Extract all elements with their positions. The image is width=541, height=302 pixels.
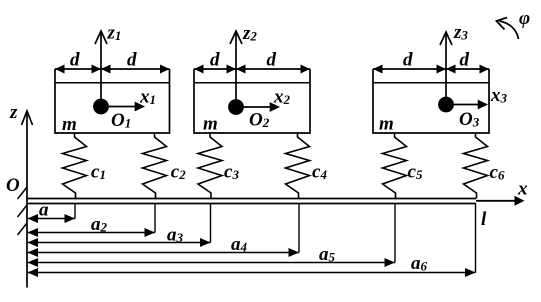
drop line below spring at x=395 xyxy=(394,204,396,263)
dimension line a xyxy=(27,218,75,220)
dimension line a4 xyxy=(27,252,299,254)
mass block 3 outline xyxy=(373,69,489,133)
svg-text:m: m xyxy=(379,114,394,135)
dimension line a5 xyxy=(27,262,395,264)
wall hatch 1 xyxy=(18,187,28,199)
svg-text:d: d xyxy=(403,50,413,71)
z1 arrowhead xyxy=(95,31,107,44)
x3 axis arrow xyxy=(446,104,480,106)
spring c1 xyxy=(63,133,87,199)
center of mass O1 dot xyxy=(93,99,109,115)
svg-text:O: O xyxy=(6,175,20,196)
svg-text:d: d xyxy=(267,50,277,71)
block 2 d-dimension line right xyxy=(236,68,310,70)
drop line below spring at x=475.5 xyxy=(475,204,477,273)
wall hatch 3 xyxy=(18,223,28,235)
drop line below spring at x=210.5 xyxy=(210,204,212,243)
drop line below spring at x=75 xyxy=(74,204,76,219)
svg-text:m: m xyxy=(62,114,77,135)
svg-text:d: d xyxy=(460,50,470,71)
wall hatch 2 xyxy=(18,205,28,217)
svg-text:l: l xyxy=(481,209,487,230)
z3 axis line xyxy=(445,33,447,105)
svg-text:d: d xyxy=(70,50,80,71)
spring c2 xyxy=(143,133,167,199)
block 3 d-dimension line right xyxy=(446,68,489,70)
z1 axis line xyxy=(100,32,102,107)
block 3 d-dimension line left xyxy=(373,68,446,70)
wall z-axis line xyxy=(26,113,28,288)
svg-text:z: z xyxy=(9,102,18,123)
dimension line a6 xyxy=(27,272,476,274)
block 1 d-dimension line right xyxy=(101,68,170,70)
mass block 2 outline xyxy=(194,69,310,133)
dimension line a3 xyxy=(27,242,211,244)
center of mass O2 dot xyxy=(228,99,244,115)
mass block 3 inner top line xyxy=(373,82,489,84)
z2 arrowhead xyxy=(230,31,242,44)
spring c3 xyxy=(198,133,222,199)
svg-text:x: x xyxy=(517,179,528,200)
spring c5 xyxy=(383,133,407,199)
x-axis arrowhead xyxy=(515,196,525,206)
mass block 1 inner top line xyxy=(55,82,170,84)
wall z-axis arrowhead xyxy=(22,111,33,125)
mass block 2 inner top line xyxy=(194,82,310,84)
svg-text:φ: φ xyxy=(519,8,530,29)
beam bottom line xyxy=(27,203,476,205)
drop line below spring at x=155 xyxy=(154,204,156,233)
mass block 1 outline xyxy=(55,69,170,133)
svg-text:d: d xyxy=(210,50,220,71)
phi rotation arc xyxy=(500,21,519,39)
svg-text:a: a xyxy=(39,200,49,221)
z2 axis line xyxy=(235,32,237,107)
spring c4 xyxy=(286,133,310,199)
x1 axis arrow xyxy=(101,106,137,108)
svg-text:d: d xyxy=(127,50,137,71)
z3 arrowhead xyxy=(440,32,452,45)
x-axis line xyxy=(476,200,516,202)
spring c6 xyxy=(464,133,488,199)
svg-text:m: m xyxy=(203,114,218,135)
drop line below spring at x=299 xyxy=(298,204,300,253)
center of mass O3 dot xyxy=(438,97,454,113)
x2 axis arrow xyxy=(236,106,272,108)
block 1 d-dimension line left xyxy=(55,68,101,70)
dimension line a2 xyxy=(27,232,155,234)
beam top line xyxy=(27,198,476,200)
phi arrowhead xyxy=(497,18,508,30)
block 2 d-dimension line left xyxy=(194,68,236,70)
